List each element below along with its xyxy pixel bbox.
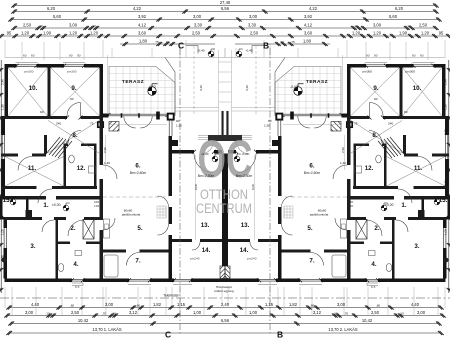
mirrored building geometry, right unit <box>223 46 450 335</box>
svg-text:90: 90 <box>70 97 74 101</box>
svg-text:3.: 3. <box>30 243 35 250</box>
svg-text:10: 10 <box>92 24 96 28</box>
svg-text:Bm=2,30m: Bm=2,30m <box>236 174 253 178</box>
svg-text:1,82: 1,82 <box>289 302 298 307</box>
heat pump hatch <box>220 266 225 280</box>
svg-text:1,80: 1,80 <box>303 39 312 44</box>
svg-text:240: 240 <box>388 122 393 126</box>
svg-text:TERASZ: TERASZ <box>306 79 328 85</box>
corner posts <box>168 114 174 120</box>
svg-text:-0,20: -0,20 <box>241 152 248 156</box>
property line <box>0 297 450 299</box>
svg-text:95: 95 <box>7 31 12 36</box>
svg-text:pm300: pm300 <box>67 70 77 74</box>
svg-text:10: 10 <box>46 312 50 316</box>
svg-text:1,80: 1,80 <box>139 39 148 44</box>
gas symbol <box>2 258 7 263</box>
svg-text:C: C <box>178 41 184 51</box>
window sills <box>16 62 193 285</box>
svg-text:OTTHON: OTTHON <box>200 187 248 202</box>
svg-text:4.: 4. <box>73 261 78 268</box>
entry court canopy edge <box>165 58 175 117</box>
svg-text:4,22: 4,22 <box>133 6 142 11</box>
svg-text:Bm=2,30m: Bm=2,30m <box>198 174 215 178</box>
svg-text:2,40: 2,40 <box>444 180 448 186</box>
svg-text:12.: 12. <box>77 165 86 172</box>
svg-text:2,40: 2,40 <box>0 79 4 85</box>
svg-text:B: B <box>277 330 283 338</box>
door arcs <box>18 103 213 266</box>
svg-text:6,20: 6,20 <box>395 6 404 11</box>
svg-text:kültéri egység: kültéri egység <box>214 289 233 293</box>
svg-text:10,42: 10,42 <box>362 318 373 323</box>
svg-text:60: 60 <box>420 53 424 57</box>
svg-text:8.: 8. <box>372 132 377 139</box>
room 6|5 dashed boundary <box>103 196 169 198</box>
svg-text:1,00: 1,00 <box>193 310 202 315</box>
svg-text:1,40: 1,40 <box>104 161 110 165</box>
svg-text:3,00: 3,00 <box>105 302 114 307</box>
terrace tile grid <box>109 67 175 115</box>
svg-text:4.: 4. <box>371 261 376 268</box>
svg-text:13,70 2. LAKÁS: 13,70 2. LAKÁS <box>328 327 357 332</box>
svg-text:90: 90 <box>176 119 180 123</box>
svg-text:10: 10 <box>39 24 43 28</box>
witness lines top <box>5 40 225 60</box>
interior walls <box>0 68 222 279</box>
svg-text:140: 140 <box>94 204 99 208</box>
svg-text:1,00: 1,00 <box>249 310 258 315</box>
svg-text:3,92: 3,92 <box>138 14 147 19</box>
svg-text:±0,00: ±0,00 <box>52 203 61 207</box>
svg-text:5.: 5. <box>137 225 142 232</box>
svg-text:3,00: 3,00 <box>373 23 382 28</box>
terrace walk strip <box>175 108 219 112</box>
svg-text:3,10: 3,10 <box>245 85 249 91</box>
svg-text:1,50: 1,50 <box>444 104 448 110</box>
svg-text:2,50: 2,50 <box>250 31 259 36</box>
glass mullions <box>122 113 140 118</box>
svg-text:8.: 8. <box>72 132 77 139</box>
svg-text:7.: 7. <box>135 258 140 265</box>
glass front living <box>109 114 168 116</box>
svg-text:5,60: 5,60 <box>53 14 62 19</box>
svg-text:4,40: 4,40 <box>31 302 40 307</box>
svg-text:60: 60 <box>412 53 416 57</box>
svg-text:1,40: 1,40 <box>340 161 346 165</box>
svg-text:75: 75 <box>354 122 358 126</box>
svg-text:90: 90 <box>404 110 408 114</box>
svg-text:90: 90 <box>366 53 370 57</box>
svg-text:3,00: 3,00 <box>193 14 202 19</box>
interior dim lines <box>106 55 196 240</box>
misc small dims <box>40 97 408 165</box>
svg-text:11.: 11. <box>28 165 37 172</box>
svg-text:12.: 12. <box>365 165 374 172</box>
svg-text:1,00: 1,00 <box>444 229 448 235</box>
svg-text:pm240: pm240 <box>247 257 257 261</box>
svg-text:pm300: pm300 <box>24 70 34 74</box>
svg-text:60: 60 <box>166 40 170 44</box>
svg-text:4,40: 4,40 <box>411 302 420 307</box>
terrace outline <box>109 67 175 115</box>
svg-text:90: 90 <box>77 53 81 57</box>
svg-text:2,40: 2,40 <box>444 79 448 85</box>
bath tub <box>104 255 118 277</box>
svg-text:pm240: pm240 <box>190 257 200 261</box>
svg-text:TERASZ: TERASZ <box>122 79 144 85</box>
svg-text:3,30: 3,30 <box>194 23 203 28</box>
center shared wall joint <box>224 154 226 267</box>
svg-text:10: 10 <box>407 24 411 28</box>
svg-text:14.: 14. <box>240 247 249 254</box>
svg-text:3.: 3. <box>414 243 419 250</box>
walkway rails <box>222 111 227 135</box>
tile sample <box>157 206 166 218</box>
svg-text:4,12: 4,12 <box>304 23 313 28</box>
svg-text:,60: ,60 <box>310 304 315 308</box>
svg-text:11.: 11. <box>414 165 423 172</box>
wc room4 <box>58 251 81 272</box>
hall storage block <box>26 210 33 218</box>
svg-text:Telekhatár: Telekhatár <box>163 293 180 297</box>
svg-text:2.: 2. <box>374 225 379 232</box>
chimney hatch living corner <box>109 122 119 132</box>
glass return wall <box>169 119 172 136</box>
svg-text:13.: 13. <box>241 222 250 229</box>
svg-text:,70: ,70 <box>102 312 107 316</box>
svg-text:90: 90 <box>69 53 73 57</box>
svg-text:75: 75 <box>90 122 94 126</box>
svg-text:3,12: 3,12 <box>129 310 138 315</box>
svg-text:90: 90 <box>268 119 272 123</box>
svg-text:6,56: 6,56 <box>221 318 230 323</box>
svg-text:6,56: 6,56 <box>221 6 230 11</box>
svg-text:7.: 7. <box>309 258 314 265</box>
svg-text:10: 10 <box>334 312 338 316</box>
svg-text:4,22: 4,22 <box>309 6 318 11</box>
svg-text:3,30: 3,30 <box>248 23 257 28</box>
svg-text:,60: ,60 <box>70 304 75 308</box>
svg-text:1,00: 1,00 <box>0 229 4 235</box>
svg-text:4,12: 4,12 <box>138 23 147 28</box>
svg-text:2,50: 2,50 <box>192 31 201 36</box>
svg-text:10,42: 10,42 <box>78 318 89 323</box>
eaves line <box>5 57 226 59</box>
dimension row lines <box>1 6 225 334</box>
svg-text:4,50: 4,50 <box>0 255 4 261</box>
opening edge ticks <box>15 64 217 282</box>
svg-text:2,60: 2,60 <box>103 147 107 153</box>
svg-text:140: 140 <box>348 204 353 208</box>
svg-text:5,60: 5,60 <box>389 14 398 19</box>
svg-text:3,60: 3,60 <box>138 31 147 36</box>
svg-text:1,20: 1,20 <box>69 31 78 36</box>
svg-text:2,50: 2,50 <box>71 310 80 315</box>
heat pump note <box>214 285 233 293</box>
svg-text:C: C <box>165 330 171 338</box>
svg-text:1,50: 1,50 <box>264 124 270 128</box>
svg-text:1,20: 1,20 <box>421 31 430 36</box>
svg-text:,60: ,60 <box>376 304 381 308</box>
svg-text:3,00: 3,00 <box>249 14 258 19</box>
svg-text:240: 240 <box>56 122 61 126</box>
svg-text:padlóburkolat: padlóburkolat <box>122 213 141 217</box>
svg-text:1.: 1. <box>43 202 48 209</box>
svg-text:3,00: 3,00 <box>337 302 346 307</box>
svg-text:95: 95 <box>439 31 444 36</box>
porch door arc <box>201 141 214 154</box>
svg-text:6.: 6. <box>309 163 314 170</box>
svg-text:3,10: 3,10 <box>199 85 203 91</box>
svg-text:15.: 15. <box>439 197 448 204</box>
svg-text:OC: OC <box>198 130 253 189</box>
svg-text:3,95: 3,95 <box>0 129 4 135</box>
row ticks <box>0 3 218 335</box>
svg-text:1,50: 1,50 <box>0 104 4 110</box>
svg-text:1,82: 1,82 <box>153 302 162 307</box>
svg-text:,70: ,70 <box>344 312 349 316</box>
porch slab <box>208 135 225 141</box>
svg-text:2,50: 2,50 <box>419 23 428 28</box>
svg-text:6,20: 6,20 <box>47 6 56 11</box>
svg-text:4,50: 4,50 <box>444 255 448 261</box>
svg-text:60: 60 <box>23 53 27 57</box>
windows (double lines) <box>2 65 191 281</box>
svg-text:8 8: 8 8 <box>75 285 80 289</box>
svg-text:1,20: 1,20 <box>373 31 382 36</box>
svg-text:3,00: 3,00 <box>25 310 34 315</box>
porch steps <box>198 136 208 140</box>
svg-text:13,70 1. LAKÁS: 13,70 1. LAKÁS <box>92 327 121 332</box>
svg-text:10: 10 <box>112 312 116 316</box>
svg-text:3,95: 3,95 <box>444 129 448 135</box>
svg-text:1.: 1. <box>401 202 406 209</box>
svg-text:CENTRUM: CENTRUM <box>196 201 252 216</box>
svg-text:10: 10 <box>354 24 358 28</box>
svg-text:8 8: 8 8 <box>371 285 376 289</box>
svg-text:10.: 10. <box>413 85 422 92</box>
outer walls <box>0 64 225 282</box>
svg-text:5.: 5. <box>307 225 312 232</box>
wc room12 <box>69 155 96 173</box>
svg-text:2.: 2. <box>70 225 75 232</box>
svg-text:1,20: 1,20 <box>21 31 30 36</box>
svg-text:90: 90 <box>374 97 378 101</box>
svg-text:9.: 9. <box>71 85 76 92</box>
svg-text:pm300: pm300 <box>363 70 373 74</box>
svg-text:6.: 6. <box>135 163 140 170</box>
svg-text:1,20: 1,20 <box>352 31 361 36</box>
svg-text:1,15: 1,15 <box>265 302 274 307</box>
stair hatch room8 <box>46 137 72 158</box>
svg-text:2,60: 2,60 <box>341 147 345 153</box>
svg-text:3,00: 3,00 <box>69 23 78 28</box>
svg-text:3,12: 3,12 <box>313 310 322 315</box>
svg-text:3,92: 3,92 <box>304 14 313 19</box>
witness lines bottom <box>5 287 222 316</box>
svg-text:27,40: 27,40 <box>220 0 231 5</box>
svg-text:Bm=2,60m: Bm=2,60m <box>130 171 147 175</box>
svg-text:padlóburkolat: padlóburkolat <box>310 213 329 217</box>
svg-text:pm300: pm300 <box>406 70 416 74</box>
svg-text:-0,20: -0,20 <box>201 152 208 156</box>
svg-text:1,20: 1,20 <box>90 31 99 36</box>
court witness dashed <box>193 46 195 115</box>
svg-text:2,50: 2,50 <box>23 23 32 28</box>
svg-text:90: 90 <box>40 110 44 114</box>
svg-text:3,00: 3,00 <box>417 310 426 315</box>
svg-text:-0,40: -0,40 <box>245 48 252 52</box>
svg-text:3,60: 3,60 <box>304 31 313 36</box>
svg-text:60: 60 <box>280 40 284 44</box>
svg-text:2,40: 2,40 <box>221 302 230 307</box>
svg-text:10: 10 <box>400 312 404 316</box>
room diagonals <box>5 68 100 187</box>
svg-text:1,90: 1,90 <box>399 31 408 36</box>
svg-text:2,40: 2,40 <box>0 180 4 186</box>
svg-text:75: 75 <box>291 40 295 44</box>
svg-text:9.: 9. <box>373 85 378 92</box>
svg-text:-0,40: -0,40 <box>197 48 204 52</box>
svg-text:1,90: 1,90 <box>43 31 52 36</box>
svg-text:10.: 10. <box>29 85 38 92</box>
chimney shaft room2 <box>83 220 94 240</box>
mirrored dimension framework (right half) <box>225 3 450 335</box>
svg-text:Bm=2,60m: Bm=2,60m <box>304 171 321 175</box>
svg-text:,60: ,60 <box>136 304 141 308</box>
svg-text:13.: 13. <box>201 222 210 229</box>
svg-text:1,50: 1,50 <box>176 124 182 128</box>
svg-text:14.: 14. <box>202 247 211 254</box>
svg-text:2,50: 2,50 <box>371 310 380 315</box>
svg-text:6,00: 6,00 <box>194 184 198 190</box>
svg-text:6,00: 6,00 <box>251 184 255 190</box>
svg-text:1,15: 1,15 <box>177 302 186 307</box>
svg-text:90: 90 <box>374 53 378 57</box>
svg-text:75: 75 <box>155 40 159 44</box>
svg-text:60: 60 <box>31 53 35 57</box>
walkway edge <box>219 50 226 135</box>
section line C <box>179 48 181 335</box>
kitchen counter <box>104 219 110 238</box>
